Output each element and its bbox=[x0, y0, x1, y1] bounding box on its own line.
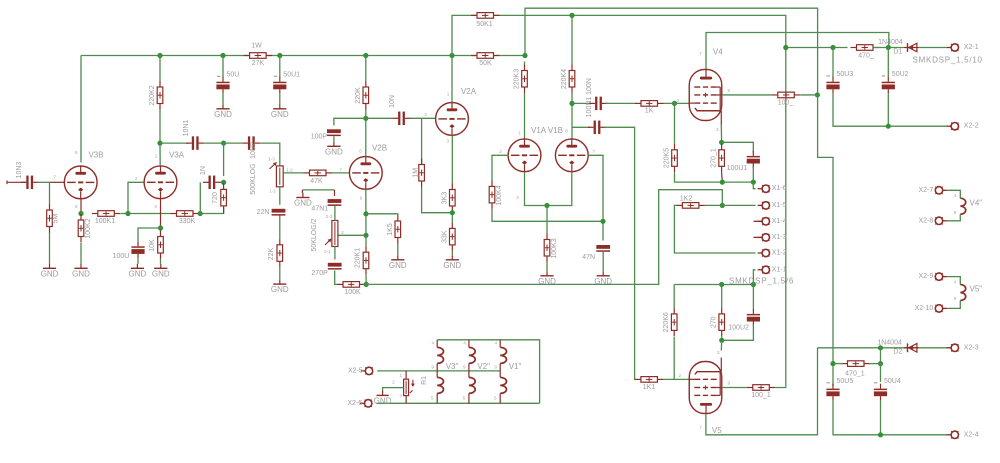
svg-text:220K1: 220K1 bbox=[354, 248, 361, 268]
junction V1B grid bias node bbox=[600, 219, 605, 224]
svg-text:9: 9 bbox=[954, 210, 957, 215]
capacitor 100N bbox=[588, 121, 606, 135]
wire cathode node to V5 bbox=[720, 340, 722, 350]
wire 1K2 right to X1-5 bbox=[705, 204, 756, 206]
junction V2B plate node bbox=[363, 116, 368, 121]
wire 50U2 top lead bbox=[887, 48, 889, 78]
capacitor 47N1 bbox=[311, 199, 341, 212]
potentiometer 500KLOG body bbox=[276, 166, 283, 187]
wire V3B cathode bbox=[80, 199, 82, 214]
wire 50U top lead bbox=[222, 56, 224, 78]
resistor 270_1 bbox=[711, 144, 725, 173]
wire 220K2 to V3A plate bbox=[159, 110, 161, 166]
svg-text:2: 2 bbox=[135, 176, 138, 181]
svg-text:V2B: V2B bbox=[372, 143, 387, 152]
wire V5 screen to 100_1 bbox=[722, 387, 747, 389]
svg-text:1-1: 1-1 bbox=[269, 188, 276, 193]
wire 100U to GND bbox=[137, 258, 139, 263]
wire 1K to V4 grid bbox=[664, 102, 690, 104]
svg-text:R1: R1 bbox=[421, 376, 428, 385]
resistor 5M bbox=[47, 204, 60, 233]
svg-text:3: 3 bbox=[516, 195, 519, 200]
junction B+ at 220K2 bbox=[157, 53, 162, 58]
svg-text:27K: 27K bbox=[252, 60, 265, 67]
svg-text:6: 6 bbox=[75, 150, 78, 155]
ground below 47N bbox=[594, 271, 612, 286]
svg-text:6: 6 bbox=[359, 149, 362, 154]
wire node to 10N2 bbox=[224, 142, 243, 144]
wire node down to 1N bbox=[223, 143, 225, 176]
wire 330K left bbox=[128, 213, 171, 215]
capacitor 100U1 bbox=[747, 151, 760, 168]
wire branch to 1K5 bbox=[366, 214, 398, 215]
resistor 470_ bbox=[851, 45, 880, 60]
svg-text:GND: GND bbox=[294, 199, 312, 208]
wire main B+ rail to 220K3 node bbox=[495, 55, 526, 57]
wire 5M tap down bbox=[49, 182, 51, 204]
wire top rail y8 bbox=[525, 8, 818, 94]
wire 100K2 to GND bbox=[80, 243, 82, 264]
wire cathode node to 100U bbox=[138, 228, 161, 241]
trimmer R1 body bbox=[404, 379, 409, 395]
resistor 100_1 bbox=[747, 385, 776, 399]
junction wiper branch bbox=[363, 233, 368, 238]
svg-text:9: 9 bbox=[728, 381, 731, 386]
wire 220K6 tap bbox=[673, 337, 675, 379]
triode V2A bbox=[436, 103, 469, 136]
wire R1 bottom lead bbox=[405, 396, 407, 404]
svg-text:7: 7 bbox=[699, 51, 702, 56]
wire 100P to GND bbox=[333, 136, 335, 142]
terminal X1-1 bbox=[758, 266, 770, 273]
wire 100N1 to 1K bbox=[606, 102, 636, 104]
wire heater mid row bbox=[377, 370, 500, 372]
svg-text:1: 1 bbox=[400, 373, 403, 378]
wire 1N left stub down bbox=[199, 182, 201, 213]
wire 220K5 to rail bbox=[675, 173, 754, 183]
wire 470_1 leads bbox=[833, 363, 843, 365]
trimmer R1 arrow bbox=[412, 380, 414, 384]
svg-text:X2-8: X2-8 bbox=[919, 217, 934, 224]
wire gnd lead 47N1 bbox=[301, 190, 303, 193]
wire V3" mid lead lower bbox=[436, 371, 438, 378]
wire 220K1 bottom bbox=[365, 275, 367, 285]
svg-text:50U4: 50U4 bbox=[884, 378, 901, 385]
wire 220K to V2B plate node bbox=[365, 110, 367, 157]
svg-text:100N1: 100N1 bbox=[586, 97, 593, 118]
resistor 3K3 bbox=[442, 184, 456, 213]
svg-text:7: 7 bbox=[592, 149, 595, 154]
svg-text:X2-10: X2-10 bbox=[915, 305, 934, 312]
svg-text:X2-4: X2-4 bbox=[964, 431, 979, 438]
wire wiper branch bbox=[338, 234, 366, 236]
svg-text:SMKDSP_1,5/10: SMKDSP_1,5/10 bbox=[913, 55, 983, 64]
svg-text:50U: 50U bbox=[227, 71, 240, 78]
resistor 270 bbox=[711, 308, 725, 337]
svg-text:1K: 1K bbox=[645, 108, 654, 115]
wire 100U2 bottom bbox=[722, 324, 754, 340]
svg-text:220K6: 220K6 bbox=[663, 312, 670, 332]
svg-text:9: 9 bbox=[954, 296, 957, 301]
svg-text:1N4004: 1N4004 bbox=[877, 340, 902, 347]
wire cathode node to 100U1 bbox=[722, 142, 754, 152]
wire 270 bottom bbox=[721, 336, 723, 340]
junction rail y15 at 220K4 bbox=[569, 13, 574, 18]
svg-text:X1-5: X1-5 bbox=[772, 202, 787, 209]
svg-text:270: 270 bbox=[711, 316, 718, 328]
svg-text:100K2: 100K2 bbox=[85, 218, 92, 238]
triode V3B bbox=[64, 166, 97, 199]
svg-text:V3": V3" bbox=[446, 362, 459, 371]
resistor R 27K 1W in B+ rail bbox=[244, 53, 273, 59]
svg-text:D2: D2 bbox=[893, 349, 902, 356]
svg-text:V4: V4 bbox=[713, 48, 723, 57]
wire 10N to V2A grid bbox=[411, 117, 436, 119]
wire 220K4 to V1B plate bbox=[571, 93, 573, 139]
wire 10K to GND bbox=[160, 259, 162, 264]
resistor 100K2 bbox=[78, 214, 92, 243]
terminal X1-6 bbox=[758, 185, 770, 192]
svg-text:22K: 22K bbox=[268, 247, 275, 260]
terminal X2-1 bbox=[947, 44, 959, 51]
resistor 1K2 bbox=[676, 203, 705, 209]
svg-text:X1-6: X1-6 bbox=[772, 185, 787, 192]
svg-text:2-3: 2-3 bbox=[326, 214, 333, 219]
wire 220K3 top lead bbox=[524, 62, 526, 65]
svg-text:50U1: 50U1 bbox=[283, 71, 300, 78]
wire V1" mid lead upper bbox=[499, 363, 501, 371]
wire 100N1 left bbox=[572, 102, 592, 104]
wire second rail y15 right bbox=[495, 15, 786, 386]
potentiometer 50KLOG/2 wiper arrow bbox=[325, 240, 331, 246]
svg-text:1: 1 bbox=[518, 131, 521, 136]
resistor 100K1 bbox=[92, 211, 121, 225]
junction B+ at 220K3 bbox=[522, 53, 527, 58]
svg-text:V5: V5 bbox=[712, 426, 722, 435]
svg-text:GND: GND bbox=[538, 277, 556, 286]
svg-text:10N1: 10N1 bbox=[183, 120, 190, 137]
ground below 100K2 bbox=[72, 264, 90, 279]
svg-text:X2-9: X2-9 bbox=[919, 273, 934, 280]
wire X2-7 to V4" coil bbox=[947, 190, 960, 198]
wire V1A cathode bbox=[525, 172, 548, 206]
wire 270_1 bottom bbox=[721, 173, 724, 183]
svg-text:2: 2 bbox=[424, 112, 427, 117]
svg-text:50U5: 50U5 bbox=[837, 378, 854, 385]
svg-text:1: 1 bbox=[447, 92, 450, 97]
wire V4 plate to B+ corner bbox=[706, 33, 889, 70]
svg-text:2-1: 2-1 bbox=[324, 249, 331, 254]
svg-text:100_: 100_ bbox=[778, 100, 794, 107]
svg-text:5: 5 bbox=[463, 395, 466, 400]
svg-text:V1A V1B: V1A V1B bbox=[531, 126, 563, 135]
resistor 220K2 bbox=[149, 81, 163, 110]
svg-text:4: 4 bbox=[432, 341, 435, 346]
wire R1 wiper to GND bbox=[383, 388, 404, 391]
wire 5M to GND bbox=[49, 233, 51, 264]
svg-text:5: 5 bbox=[494, 395, 497, 400]
inductor V2" lower winding bbox=[469, 377, 475, 393]
svg-text:1K2: 1K2 bbox=[680, 196, 693, 203]
wire V2" top coil leads bbox=[468, 340, 470, 348]
svg-text:270_1: 270_1 bbox=[711, 148, 718, 168]
wire 100K4 to bias row bbox=[492, 209, 603, 221]
wire cathodes to 100K3 bbox=[546, 206, 548, 234]
svg-text:X2-5: X2-5 bbox=[348, 367, 363, 374]
wire V1" top coil leads bbox=[499, 340, 501, 348]
svg-text:GND: GND bbox=[41, 269, 59, 278]
svg-text:GND: GND bbox=[129, 269, 147, 278]
junction X2-2 row bbox=[886, 124, 891, 129]
wire 220K1 top bbox=[365, 235, 367, 246]
wire V1A grid bbox=[492, 155, 508, 180]
junction 100K right node bbox=[364, 282, 369, 287]
svg-text:9: 9 bbox=[728, 88, 731, 93]
resistor 220K5 bbox=[663, 144, 677, 173]
ground below 50U bbox=[214, 104, 232, 119]
junction V5 cathode node bbox=[719, 338, 724, 343]
resistor 1K1 bbox=[635, 377, 664, 391]
svg-text:220K3: 220K3 bbox=[514, 69, 521, 89]
junction 1K5 branch bbox=[363, 211, 368, 216]
wire V4 screen to 100_ bbox=[722, 94, 772, 96]
junction lower rail at 100U2 bbox=[751, 282, 756, 287]
wire 270 top bbox=[721, 285, 723, 309]
wire 100_1 to HT riser bbox=[775, 386, 786, 387]
inductor heater V5" bbox=[960, 285, 965, 301]
svg-text:V4": V4" bbox=[970, 198, 983, 207]
svg-text:220K2: 220K2 bbox=[149, 85, 156, 105]
svg-text:47N1: 47N1 bbox=[311, 205, 328, 212]
svg-text:3: 3 bbox=[447, 139, 450, 144]
inductor V1" upper winding bbox=[500, 347, 506, 363]
wire 1K5 to GND bbox=[397, 244, 399, 256]
input pin tick bbox=[6, 181, 8, 185]
resistor 720 bbox=[212, 183, 226, 212]
inductor V1" lower winding bbox=[500, 377, 506, 393]
resistor 1M bbox=[413, 159, 425, 188]
terminal X2-2 bbox=[947, 123, 959, 130]
wire 720 bottom bbox=[223, 208, 225, 214]
svg-text:50K: 50K bbox=[479, 60, 492, 67]
junction B+ at 50U1 bbox=[277, 53, 282, 58]
wire 50U2 bottom bbox=[887, 94, 889, 126]
wire 22K to GND bbox=[279, 267, 281, 279]
svg-text:4: 4 bbox=[463, 341, 466, 346]
junction V3A cathode node bbox=[158, 225, 163, 230]
diode D1 bbox=[904, 43, 919, 52]
svg-text:10N2: 10N2 bbox=[250, 142, 257, 159]
resistor 50K1 in rail bbox=[471, 13, 500, 28]
resistor 47K bbox=[304, 170, 333, 185]
wire V4 cathode down bbox=[720, 125, 722, 143]
svg-text:100K: 100K bbox=[344, 289, 361, 296]
wire 47K to V2B grid bbox=[332, 172, 349, 174]
wire second rail y15 left bbox=[452, 15, 477, 55]
wire X2-3 row bbox=[818, 347, 951, 349]
svg-text:220K: 220K bbox=[355, 87, 362, 104]
capacitor 100U cathode bypass bbox=[131, 241, 144, 258]
svg-text:1-3: 1-3 bbox=[268, 157, 275, 162]
wire 10N1 to node bbox=[204, 142, 223, 144]
resistor 50K in rail bbox=[471, 53, 500, 67]
triode V3A bbox=[144, 166, 177, 199]
terminal X2-10 bbox=[935, 305, 947, 312]
capacitor 50U2 bbox=[882, 71, 909, 94]
capacitor 100P bbox=[311, 129, 341, 140]
svg-text:X1-2: X1-2 bbox=[772, 250, 787, 257]
svg-text:X1-1: X1-1 bbox=[772, 266, 787, 273]
svg-text:50U2: 50U2 bbox=[892, 71, 909, 78]
wire V3" bottom lead bbox=[436, 393, 438, 403]
wire 50U4 bottom bbox=[880, 401, 882, 435]
junction X2-1 row at 50U3 bbox=[830, 45, 835, 50]
svg-text:220K5: 220K5 bbox=[663, 148, 670, 168]
wire 10N2 to pot top bbox=[260, 143, 280, 166]
capacitor 10N2 bbox=[242, 136, 260, 150]
svg-text:1W: 1W bbox=[251, 42, 262, 49]
svg-text:4: 4 bbox=[954, 193, 957, 198]
junction 470_1 right bbox=[878, 361, 883, 366]
svg-text:8: 8 bbox=[75, 204, 78, 209]
capacitor 22N bbox=[257, 209, 286, 216]
wire HT2 dropper run bbox=[818, 94, 833, 386]
capacitor 10N1 bbox=[183, 120, 204, 150]
junction lower rail at 270 bbox=[719, 282, 724, 287]
resistor 470_1 bbox=[842, 361, 871, 378]
terminal X2-4 bbox=[947, 431, 959, 438]
wire 1M bottom to cathode node bbox=[422, 187, 453, 213]
svg-text:GND: GND bbox=[214, 110, 232, 119]
wire main B+ rail right segment bbox=[266, 55, 477, 57]
resistor 33K bbox=[442, 222, 456, 251]
svg-text:50K1: 50K1 bbox=[476, 21, 492, 28]
svg-text:720: 720 bbox=[212, 192, 219, 204]
capacitor 50U4 bbox=[874, 378, 901, 401]
svg-text:1N4004: 1N4004 bbox=[878, 39, 903, 46]
svg-text:GND: GND bbox=[325, 147, 343, 156]
svg-text:9: 9 bbox=[463, 364, 466, 369]
wire D1 to X2-1 bbox=[919, 47, 947, 49]
svg-text:X2-7: X2-7 bbox=[919, 187, 934, 194]
svg-text:V5": V5" bbox=[970, 285, 983, 294]
resistor 10K bbox=[149, 231, 163, 260]
wire 270P to 100K corner bbox=[335, 271, 337, 285]
svg-text:3: 3 bbox=[717, 350, 720, 355]
ground below 1K5 bbox=[389, 255, 407, 270]
wire V4 grid to 220K5 bbox=[674, 103, 676, 143]
svg-text:X1-4: X1-4 bbox=[772, 218, 787, 225]
wire V3" top coil leads bbox=[436, 340, 438, 348]
junction 10N1-10N2 node bbox=[221, 141, 226, 146]
wire 22N to 22K bbox=[279, 216, 281, 239]
junction X2-1 row at HT riser bbox=[783, 45, 788, 50]
wire 100K3 to GND bbox=[546, 262, 548, 271]
svg-text:470_: 470_ bbox=[858, 52, 874, 59]
svg-text:V1": V1" bbox=[509, 362, 522, 371]
inductor heater V4" bbox=[960, 198, 965, 214]
svg-text:GND: GND bbox=[389, 261, 407, 270]
junction 100_ right bbox=[815, 92, 820, 97]
wire X2-1 row bbox=[786, 47, 848, 49]
potentiometer 500KLOG wiper arrow bbox=[270, 163, 276, 169]
junction V3A grid node bbox=[125, 211, 130, 216]
junction V2A cathode node bbox=[450, 210, 455, 215]
svg-text:GND: GND bbox=[374, 397, 392, 406]
svg-text:100K1: 100K1 bbox=[95, 218, 115, 225]
terminal X2-5 bbox=[361, 367, 373, 374]
junction V4 grid node bbox=[672, 101, 677, 106]
terminal X2-6 bbox=[360, 400, 372, 407]
svg-text:GND: GND bbox=[594, 277, 612, 286]
resistor 100K bbox=[337, 282, 366, 296]
wire 47N1 top lead bbox=[334, 190, 336, 196]
ground below 33K bbox=[443, 255, 461, 270]
wire V1" bottom lead bbox=[499, 393, 501, 403]
svg-text:4: 4 bbox=[495, 341, 498, 346]
ground at 47N1 bbox=[294, 193, 312, 208]
wire X1-1 riser bbox=[753, 270, 755, 285]
capacitor 50U3 bbox=[826, 71, 853, 94]
inductor V3" lower winding bbox=[437, 377, 443, 393]
resistor 220K3 bbox=[514, 65, 528, 94]
wire V1" mid lead lower bbox=[499, 371, 501, 378]
wire V2B cathode down bbox=[365, 189, 367, 235]
svg-text:100K3: 100K3 bbox=[551, 238, 558, 258]
wire 100N left bbox=[572, 126, 590, 128]
svg-text:100N: 100N bbox=[586, 78, 593, 95]
resistor 220K1 bbox=[354, 246, 369, 275]
wire heater top row bbox=[437, 340, 539, 404]
wire plate node to 10N bbox=[366, 117, 393, 119]
potentiometer 50KLOG/2 body bbox=[332, 221, 338, 247]
svg-text:3: 3 bbox=[400, 394, 403, 399]
svg-text:100_1: 100_1 bbox=[751, 392, 771, 399]
junction V1B plate at 100N1 bbox=[569, 101, 574, 106]
svg-text:1N: 1N bbox=[200, 166, 207, 175]
svg-text:100P: 100P bbox=[311, 134, 328, 141]
resistor 1K5 bbox=[387, 215, 401, 244]
wire heater bottom row bbox=[376, 402, 539, 404]
capacitor 10N coupling bbox=[389, 95, 411, 125]
svg-text:5M: 5M bbox=[53, 213, 60, 223]
svg-text:2: 2 bbox=[677, 98, 680, 103]
resistor 330K bbox=[171, 211, 200, 225]
svg-text:V2": V2" bbox=[477, 362, 490, 371]
wire pot wiper to 47K bbox=[283, 172, 303, 174]
wire 50U5 bottom to X2-4 row bbox=[833, 401, 947, 435]
svg-text:100U2: 100U2 bbox=[728, 325, 749, 332]
svg-text:D1: D1 bbox=[893, 48, 902, 55]
svg-text:220K4: 220K4 bbox=[561, 69, 568, 89]
wire 100K1 to V3A grid riser bbox=[121, 213, 128, 215]
wire 50U1 top lead bbox=[279, 56, 281, 78]
wire V3A plate to 10N1 bbox=[160, 142, 189, 144]
junction V3A plate node bbox=[157, 141, 162, 146]
terminal X1-5 bbox=[758, 202, 770, 209]
svg-text:7: 7 bbox=[339, 168, 342, 173]
inductor V2" upper winding bbox=[469, 347, 475, 363]
terminal X2-9 bbox=[935, 273, 947, 280]
wire lower rail bbox=[674, 284, 753, 286]
wire 100N to V5 grid run bbox=[604, 127, 635, 379]
svg-text:V3B: V3B bbox=[88, 151, 103, 160]
resistor 100K4 bbox=[489, 180, 503, 209]
triode V2B bbox=[349, 157, 382, 190]
wire V4" coil to X2-8 bbox=[947, 214, 960, 221]
resistor 220K6 bbox=[663, 308, 677, 337]
capacitor 270P bbox=[311, 263, 341, 277]
